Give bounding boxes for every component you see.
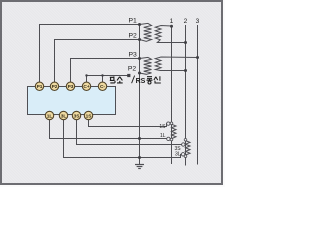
junction dot PT2 primary top on line 3 — [196, 56, 199, 59]
pulse line end square — [127, 74, 130, 77]
terminal P1 — [35, 82, 43, 90]
terminal P3 — [66, 82, 74, 90]
PT U2 primary winding (line3-line2) — [155, 57, 197, 71]
svg-text:P1: P1 — [37, 84, 43, 90]
terminal P2 — [50, 82, 58, 90]
svg-text:P2: P2 — [128, 32, 137, 39]
junction dot 3L lead/ground bus — [138, 156, 141, 159]
terminal 1L — [45, 111, 53, 119]
CT T2 winding on line 2 — [186, 141, 191, 155]
wire ground bus vertical (P2 common + CT common to earth) — [139, 25, 141, 164]
CT T1 terminal circle 1L — [167, 137, 170, 140]
junction dot PT1 primary bottom on line 2 — [184, 41, 187, 44]
svg-text:1L: 1L — [47, 113, 53, 119]
wire P2 bracket from meter P2 terminal — [55, 40, 140, 83]
wire P3 bracket from meter P3 terminal — [71, 59, 140, 83]
svg-text:3: 3 — [196, 18, 200, 25]
CT T2 terminal circle 3L — [181, 153, 184, 156]
svg-text:P2: P2 — [52, 84, 58, 90]
svg-text:3L: 3L — [175, 151, 181, 157]
svg-text:1S: 1S — [86, 113, 93, 119]
PT U1 secondary winding (P1-P2) — [140, 23, 152, 41]
wire pulse output from C+ and C- — [87, 76, 129, 83]
wire P1 bracket from meter P1 terminal — [40, 25, 140, 83]
svg-text:3S: 3S — [74, 113, 81, 119]
PT U1 primary winding (line1-line2) — [155, 26, 185, 43]
terminal 3S — [72, 111, 80, 119]
svg-text:1S: 1S — [159, 124, 166, 130]
terminal 3L — [59, 111, 67, 119]
junction dot P2/ground bus — [138, 38, 141, 41]
svg-text:P2: P2 — [128, 65, 137, 72]
label 펄스 (pulse) drawn glyphs — [110, 76, 123, 83]
PT U2 secondary winding (P3-P2) — [140, 57, 152, 74]
CT T1 small top circle on line — [170, 122, 173, 125]
junction dot C- stub — [101, 74, 103, 76]
junction dot P1/ground bus — [138, 23, 141, 26]
meter box — [28, 87, 116, 115]
wire C- stub — [102, 76, 104, 83]
wire CT lead 3S — [77, 120, 182, 145]
junction dot P2 common/ground bus — [138, 72, 141, 75]
svg-text:1: 1 — [170, 18, 174, 25]
terminal C+ — [82, 82, 90, 90]
junction dot C+ stub — [85, 74, 87, 76]
CT T2 small bottom circle on line — [184, 155, 187, 158]
junction dot P3/ground bus — [138, 57, 141, 60]
svg-text:RS: RS — [136, 78, 146, 85]
svg-text:C-: C- — [100, 84, 105, 90]
label 통신 (comm) drawn glyphs — [147, 76, 161, 84]
wire CT lead 1L — [50, 120, 167, 139]
wire CT lead 3L — [64, 120, 181, 158]
svg-text:P3: P3 — [128, 51, 137, 58]
CT T1 winding on line 1 — [172, 124, 177, 138]
svg-text:2: 2 — [184, 18, 188, 25]
wire phase line 1 — [171, 26, 173, 164]
ground symbol — [135, 165, 144, 169]
terminal C- — [98, 82, 106, 90]
svg-text:C+: C+ — [83, 84, 89, 90]
wire phase line 3 — [197, 26, 199, 165]
CT T1 small bottom circle on line — [170, 138, 173, 141]
svg-text:P1: P1 — [128, 17, 137, 24]
terminal 1S — [84, 111, 92, 119]
CT T2 terminal circle 3S — [182, 143, 185, 146]
junction dot PT2 primary bottom on line 2 — [184, 69, 187, 72]
svg-text:P3: P3 — [68, 84, 74, 90]
wire CT lead 1S — [89, 120, 167, 127]
label slash — [132, 76, 135, 84]
svg-text:1L: 1L — [160, 133, 166, 139]
CT T2 small top circle on line — [184, 139, 187, 142]
svg-text:3L: 3L — [61, 113, 67, 119]
CT T1 terminal circle 1S — [167, 122, 170, 125]
junction dot 1L lead/ground bus — [138, 137, 141, 140]
junction dot PT1 primary top on line 1 — [170, 25, 173, 28]
wire phase line 2 — [185, 26, 187, 166]
